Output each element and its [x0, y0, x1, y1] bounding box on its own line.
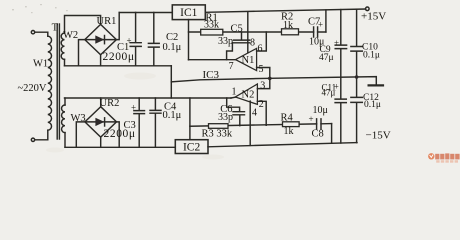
svg-text:33p: 33p [218, 36, 233, 47]
svg-text:33k: 33k [204, 20, 219, 31]
svg-text:C5: C5 [231, 24, 243, 35]
svg-text:IC2: IC2 [183, 142, 201, 154]
svg-text:−15V: −15V [366, 130, 391, 142]
svg-text:0.1μ: 0.1μ [163, 42, 182, 53]
svg-text:+15V: +15V [361, 11, 386, 23]
svg-text:2200μ: 2200μ [104, 128, 136, 140]
svg-text:W3: W3 [71, 113, 86, 124]
svg-text:1k: 1k [283, 20, 293, 31]
svg-text:10μ: 10μ [313, 105, 328, 116]
svg-text:3: 3 [260, 80, 265, 91]
svg-text:0.1μ: 0.1μ [363, 51, 380, 61]
svg-text:1: 1 [232, 87, 237, 98]
svg-text:8: 8 [250, 38, 255, 49]
svg-text:W2: W2 [63, 30, 78, 41]
svg-text:5: 5 [259, 64, 264, 75]
svg-text:W1: W1 [33, 59, 48, 70]
svg-text:UR1: UR1 [97, 16, 117, 27]
svg-text:IC3: IC3 [203, 69, 220, 81]
svg-text:+: + [334, 82, 339, 92]
svg-text:0.1μ: 0.1μ [364, 100, 381, 110]
svg-text:+: + [127, 36, 132, 46]
svg-text:1k: 1k [284, 126, 294, 137]
svg-text:2200μ: 2200μ [103, 51, 135, 63]
svg-text:UR2: UR2 [100, 98, 120, 109]
svg-text:7: 7 [229, 61, 234, 72]
svg-text:+: + [131, 103, 136, 113]
svg-text:47μ: 47μ [319, 53, 334, 63]
svg-text:4: 4 [252, 107, 257, 118]
svg-text:R4: R4 [281, 113, 294, 124]
svg-text:T: T [52, 23, 59, 34]
svg-text:0.1μ: 0.1μ [163, 110, 182, 121]
svg-text:R3 33k: R3 33k [202, 129, 233, 140]
svg-text:N2: N2 [242, 89, 255, 100]
svg-text:N1: N1 [242, 55, 255, 66]
svg-text:33p: 33p [218, 112, 233, 123]
svg-text:+: + [334, 38, 339, 48]
svg-text:+: + [318, 20, 323, 30]
svg-text:~220V: ~220V [18, 83, 47, 94]
svg-text:6: 6 [258, 44, 263, 55]
svg-text:IC1: IC1 [180, 7, 198, 19]
svg-text:C8: C8 [312, 129, 324, 140]
svg-text:+: + [309, 114, 314, 124]
svg-text:2: 2 [259, 99, 264, 110]
